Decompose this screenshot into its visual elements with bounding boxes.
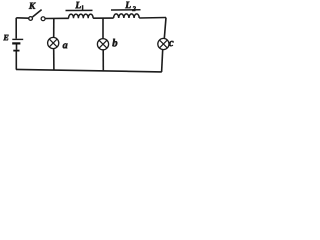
switch K contact 1	[29, 17, 33, 21]
lamp b cross stroke 1	[99, 40, 107, 48]
switch K blade	[33, 10, 42, 17]
wire: right vertical upper	[164, 18, 166, 39]
label c	[169, 41, 174, 46]
lamp b circle	[97, 39, 108, 50]
wire: switch to node A	[45, 17, 69, 19]
battery E plate 3	[13, 50, 19, 52]
wire: right vertical lower	[162, 50, 163, 72]
wire: L1 to L2 through node B	[93, 17, 114, 19]
wire: left vertical upper	[15, 18, 17, 39]
lamp b cross stroke 2	[99, 40, 107, 48]
wire: L2 to top right corner	[139, 17, 166, 20]
lamp a cross stroke 1	[49, 39, 57, 47]
wire: left vertical lower	[15, 52, 17, 70]
wire: bottom horizontal	[16, 69, 162, 72]
battery E inner wire	[16, 45, 18, 50]
label L2 (L)	[125, 2, 131, 8]
label K	[29, 3, 36, 9]
battery E plate short thick	[12, 42, 20, 44]
label L2 subscript 2	[132, 6, 135, 11]
node B wire down to lamp b	[102, 18, 104, 38]
inductor L2 core bar	[111, 9, 141, 11]
inductor L2 coil	[114, 14, 140, 18]
lamp a cross stroke 2	[49, 39, 57, 47]
battery E plate long	[12, 38, 23, 40]
lamp c cross stroke 1	[160, 40, 168, 48]
node A wire down to lamp a	[53, 19, 55, 38]
lamp a circle	[48, 37, 59, 48]
lamp c cross stroke 2	[160, 40, 168, 48]
label E	[3, 35, 8, 40]
switch K contact 2	[41, 17, 45, 21]
label L1 (L)	[75, 2, 81, 8]
wire: top left horizontal	[16, 17, 28, 19]
inductor L1 coil	[69, 14, 94, 18]
wire: lamp a to bottom	[53, 49, 55, 70]
label b	[112, 39, 117, 47]
inductor L1 core bar	[66, 9, 93, 11]
lamp c circle	[158, 38, 169, 49]
label L1 subscript 1	[82, 5, 84, 10]
wire: lamp b to bottom	[102, 50, 104, 71]
label a	[63, 43, 68, 48]
